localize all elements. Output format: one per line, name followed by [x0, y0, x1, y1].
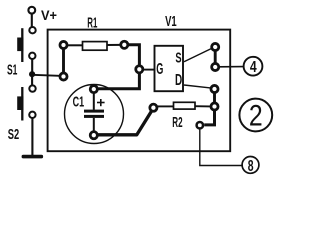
- wire: [31, 14, 33, 26]
- plus polarity: [97, 99, 105, 106]
- svg-text:R2: R2: [172, 114, 182, 131]
- wire: [98, 73, 139, 88]
- terminal: [197, 122, 203, 128]
- junction: [29, 71, 35, 77]
- svg-text:4: 4: [250, 59, 257, 76]
- svg-text:8: 8: [248, 158, 254, 175]
- svg-text:G: G: [156, 61, 163, 78]
- svg-text:R1: R1: [87, 15, 97, 32]
- resistor R2: [158, 102, 211, 109]
- wire: [184, 85, 210, 88]
- svg-text:S2: S2: [8, 126, 19, 143]
- capacitor C1 symbol: [84, 93, 104, 131]
- pin pair P2: [212, 43, 219, 70]
- svg-text:2: 2: [249, 100, 263, 133]
- resistor R1: [68, 42, 120, 51]
- chassis bar: [22, 155, 43, 159]
- module V1 box: [48, 30, 231, 152]
- wire: [220, 66, 244, 68]
- wire: [143, 69, 155, 71]
- terminal: [121, 41, 128, 48]
- wire: [31, 59, 33, 71]
- pin pair P3: [211, 85, 218, 110]
- pin pair P1: [60, 41, 67, 80]
- terminal: [90, 86, 97, 93]
- svg-text:V+: V+: [41, 7, 57, 23]
- wire: [98, 111, 151, 135]
- wire: [32, 75, 59, 76]
- terminal 4: [244, 57, 263, 76]
- terminal: [90, 132, 97, 139]
- capacitor C1 outline: [65, 85, 124, 144]
- svg-text:C1: C1: [73, 93, 85, 110]
- wire: [31, 76, 33, 85]
- terminal: [150, 104, 157, 111]
- svg-text:D: D: [175, 72, 182, 89]
- wire: [128, 45, 139, 65]
- callout 2: [239, 99, 272, 133]
- switch S2: [17, 85, 36, 120]
- switch S1: [17, 27, 36, 62]
- wire: [204, 110, 214, 125]
- terminal V+: [28, 7, 35, 14]
- wire: [31, 119, 33, 156]
- terminal: [136, 66, 143, 73]
- svg-text:S1: S1: [7, 61, 17, 78]
- terminal 8: [242, 157, 259, 175]
- wire: [200, 129, 242, 165]
- svg-text:V1: V1: [165, 14, 177, 30]
- wire: [184, 48, 212, 61]
- svg-text:S: S: [175, 49, 181, 66]
- transistor module U1 box: [155, 46, 184, 91]
